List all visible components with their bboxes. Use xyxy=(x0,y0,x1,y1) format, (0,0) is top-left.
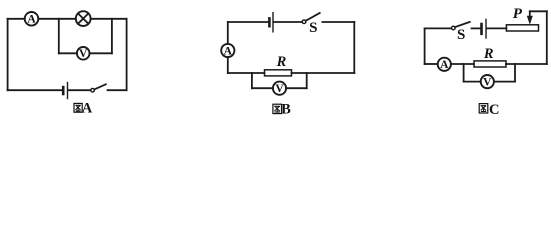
svg-text:V: V xyxy=(483,77,492,89)
svg-text:A: A xyxy=(440,59,449,71)
wire: C switch to battery xyxy=(472,27,481,29)
node: A voltmeter branch left xyxy=(58,19,60,54)
caption 图A : glyph 图 drawn as paths xyxy=(74,103,82,112)
wire: B voltmeter drop left xyxy=(251,73,253,88)
resistor R2 xyxy=(265,70,292,76)
wire: C voltmeter row right xyxy=(494,81,515,83)
wire: B battery to switch xyxy=(274,21,302,23)
ammeter A3 xyxy=(438,58,451,71)
wire: C battery to rheostat xyxy=(487,27,506,29)
ammeter A1 xyxy=(25,12,39,26)
voltmeter V1 xyxy=(77,47,90,60)
wire: B left vertical upper xyxy=(227,22,229,44)
wire: B top rail left xyxy=(228,21,268,23)
wire: C voltmeter row left xyxy=(464,81,481,83)
wire: B voltmeter drop right xyxy=(306,73,308,88)
wire: A right vertical xyxy=(126,19,128,90)
wire: B bottom rail right xyxy=(292,72,355,74)
svg-text:R: R xyxy=(276,54,287,70)
voltmeter V2 xyxy=(273,82,286,95)
svg-text:P: P xyxy=(513,6,523,22)
wire: A bottom rail left xyxy=(8,89,62,91)
wire: B bottom rail left xyxy=(228,72,265,74)
svg-text:S: S xyxy=(309,20,317,36)
svg-text:A: A xyxy=(224,45,233,57)
battery B1 xyxy=(63,83,67,99)
switch S3 xyxy=(452,22,470,30)
rheostat P body xyxy=(506,25,538,31)
wire: A battery to switch xyxy=(69,89,91,91)
svg-text:A: A xyxy=(27,14,36,26)
resistor R3 xyxy=(474,61,506,67)
wire: B left vertical lower xyxy=(227,57,229,73)
battery B2 xyxy=(269,13,273,32)
wire: B voltmeter row left xyxy=(252,87,273,89)
switch S2 xyxy=(302,13,320,24)
switch S1 xyxy=(91,84,106,92)
wire: A voltmeter row left xyxy=(59,52,77,54)
svg-text:V: V xyxy=(275,83,284,95)
svg-text:V: V xyxy=(79,48,88,60)
wire: B switch to corner xyxy=(322,21,354,23)
wire: A switch to corner xyxy=(108,89,127,91)
wire: A top rail left segment xyxy=(8,18,25,20)
svg-text:A: A xyxy=(82,101,93,117)
wire: A left vertical xyxy=(7,19,9,90)
wire: B voltmeter row right xyxy=(286,87,307,89)
svg-text:S: S xyxy=(457,27,465,43)
wire: C wiper top link xyxy=(530,10,547,12)
wire: A voltmeter branch right xyxy=(111,19,113,54)
caption 图B : glyph 图 drawn as paths xyxy=(273,104,282,113)
battery B3 xyxy=(482,19,487,38)
lamp L1 xyxy=(76,11,91,26)
caption 图C : glyph 图 drawn as paths xyxy=(479,104,488,113)
wire: C voltmeter drop right xyxy=(514,64,516,82)
wire: C bottom rail right xyxy=(506,63,547,65)
ammeter A2 xyxy=(221,44,234,57)
wire: A top rail between ammeter and lamp xyxy=(38,18,76,20)
svg-text:C: C xyxy=(489,102,499,118)
svg-text:B: B xyxy=(281,102,291,118)
wire: C top rail left xyxy=(425,27,452,29)
wire: B right vertical xyxy=(353,22,355,73)
svg-text:R: R xyxy=(483,46,494,62)
wire: C left vertical xyxy=(424,28,426,64)
wire: A top rail right segment xyxy=(91,18,127,20)
wire: C bottom rail left xyxy=(425,63,438,65)
wire: C voltmeter drop left xyxy=(463,64,465,82)
voltmeter V3 xyxy=(481,75,494,88)
wire: C right vertical xyxy=(546,11,548,64)
wire: A voltmeter row right xyxy=(90,52,112,54)
rheostat P wiper arrow xyxy=(527,11,533,24)
wire: C ammeter to resistor xyxy=(451,63,474,65)
